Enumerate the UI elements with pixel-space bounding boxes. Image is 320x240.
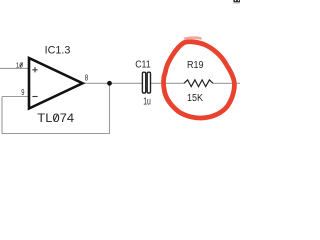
svg-text:C11: C11 (135, 59, 151, 70)
svg-text:10: 10 (16, 61, 23, 70)
svg-text:15K: 15K (187, 93, 203, 104)
svg-text:8: 8 (85, 73, 89, 82)
svg-text:R19: R19 (187, 60, 204, 71)
svg-text:9: 9 (21, 88, 25, 97)
svg-text:IC1.3: IC1.3 (45, 45, 71, 57)
svg-text:1u: 1u (143, 95, 151, 107)
